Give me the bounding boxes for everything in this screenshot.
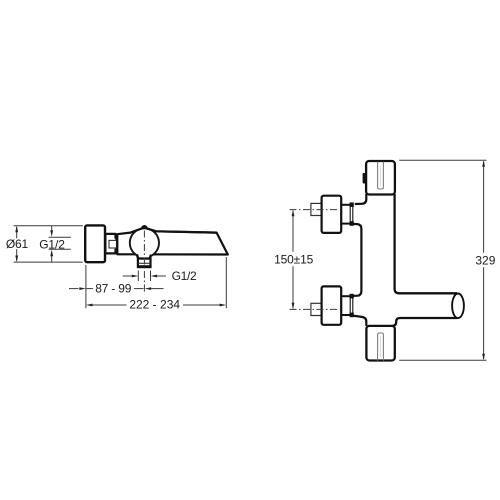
top inlet escutcheon (322, 196, 342, 233)
bottom knob (366, 326, 394, 361)
dimension: 150+-15 (292, 211, 294, 252)
tent over circle (131, 226, 217, 232)
bottom inlet escutcheon (322, 286, 342, 324)
svg-text:329: 329 (475, 254, 495, 268)
svg-text:222 - 234: 222 - 234 (129, 297, 180, 311)
top inlet centerline (290, 209, 339, 211)
neck between inlets (350, 224, 362, 296)
dimension: 329 (399, 159, 486, 161)
dimension: O61 extension lines (14, 225, 83, 227)
bottom inlet stub (311, 303, 322, 315)
tube bottom + corner to bottom knob (392, 318, 458, 326)
extension line below spout tip (225, 257, 227, 308)
dimension: 222 - 234 (86, 304, 93, 307)
nut flanges (114, 234, 118, 239)
svg-text:G1/2: G1/2 (39, 237, 65, 251)
column right edge + tube top (395, 194, 458, 293)
dimension: 87 - 99 (69, 288, 79, 290)
svg-text:Ø61: Ø61 (6, 237, 29, 251)
safety button (363, 173, 366, 184)
body band + spout (117, 226, 228, 254)
top nut (341, 204, 350, 206)
aerator box (138, 259, 151, 268)
nipple face (thin square) (109, 240, 117, 248)
tube end ellipse (452, 294, 464, 319)
elbow from bottom nut to bottom knob (350, 315, 366, 326)
wall flange (85, 225, 105, 262)
elbow from top knob to top nut (355, 194, 367, 204)
bottom nut (341, 295, 350, 297)
top knob (366, 161, 395, 195)
top knob slot (378, 162, 384, 189)
O61 dimension line + arrows (16, 227, 18, 238)
svg-text:87 - 99: 87 - 99 (95, 282, 131, 296)
union cover (105, 234, 116, 254)
aerator neck (137, 254, 151, 258)
bottom knob slot (378, 333, 384, 361)
dimension: G1/2 (wall union) short lines (49, 236, 71, 238)
handle circle (130, 228, 159, 257)
centerline (dash) through circle/aerator (143, 231, 145, 293)
top inlet stub (311, 203, 322, 215)
svg-text:G1/2: G1/2 (172, 269, 197, 283)
extension line below wall flange (85, 265, 87, 308)
bottom inlet centerline (290, 308, 339, 310)
svg-text:150±15: 150±15 (274, 252, 314, 266)
dimension: aerator G1/2 row (137, 271, 139, 282)
